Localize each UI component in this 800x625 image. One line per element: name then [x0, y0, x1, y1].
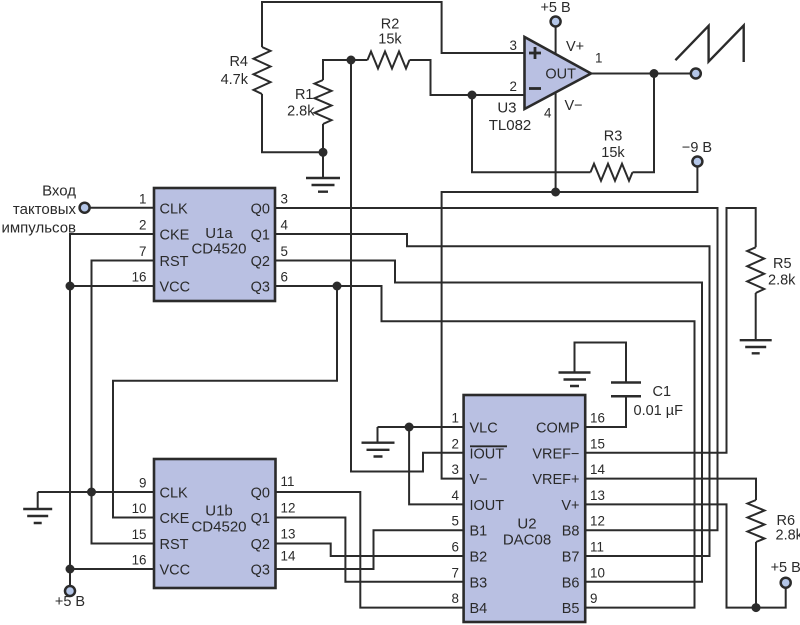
wire: U1a CKE to +5V rail	[70, 234, 154, 586]
svg-text:11: 11	[281, 474, 295, 489]
power -9V terminal	[692, 157, 702, 167]
svg-text:B5: B5	[562, 601, 580, 617]
node: V- / -9V rail junction	[551, 188, 560, 197]
svg-text:B7: B7	[562, 550, 580, 566]
svg-text:5: 5	[452, 514, 459, 529]
wire: input to U1a CLK	[90, 207, 154, 209]
wire: R2 right to op-amp -input	[410, 60, 525, 95]
svg-text:Q3: Q3	[251, 563, 270, 579]
wire: DAC VLC to ground	[378, 426, 464, 428]
svg-text:16: 16	[132, 553, 147, 568]
svg-text:V−: V−	[470, 472, 488, 488]
resistor R1	[315, 80, 332, 124]
wire: DAC V+ to +5V	[585, 504, 786, 607]
IC U2 DAC08	[464, 395, 586, 622]
svg-text:8: 8	[452, 591, 459, 606]
svg-text:15: 15	[590, 436, 605, 451]
svg-text:U2: U2	[517, 516, 536, 533]
svg-text:B1: B1	[470, 524, 488, 540]
resistor R6	[748, 500, 765, 542]
svg-text:V+: V+	[561, 498, 579, 514]
output terminal	[691, 69, 701, 79]
svg-text:15k: 15k	[601, 145, 625, 161]
node: +5 rail / U1a VCC	[66, 282, 75, 291]
svg-text:14: 14	[281, 549, 296, 564]
node A: R1/R2 junction	[347, 56, 356, 65]
svg-text:12: 12	[590, 514, 605, 529]
svg-text:CD4520: CD4520	[191, 241, 246, 258]
svg-text:11: 11	[590, 540, 604, 555]
svg-text:1: 1	[139, 192, 146, 207]
svg-text:Q0: Q0	[251, 202, 270, 218]
svg-text:B4: B4	[470, 601, 488, 617]
svg-text:U3: U3	[497, 100, 516, 117]
ground G5	[740, 340, 772, 353]
wire: op-amp V- down to -9V rail	[555, 92, 557, 192]
svg-text:+5 В: +5 В	[55, 594, 85, 610]
resistor R3	[591, 164, 633, 181]
op-amp minus symbol	[529, 87, 541, 90]
svg-text:TL082: TL082	[489, 117, 532, 134]
svg-text:RST: RST	[160, 537, 189, 553]
wire: U1a Q1 to DAC B7	[275, 234, 710, 556]
IC U1b CD4520	[154, 459, 276, 588]
wire: R6 bottom to +5V rail	[755, 542, 757, 608]
svg-text:тактовых: тактовых	[13, 201, 77, 218]
op-amp plus symbol	[529, 47, 541, 59]
svg-text:3: 3	[510, 38, 517, 53]
svg-text:16: 16	[590, 411, 605, 426]
wire: DAC COMP to C1	[585, 396, 626, 427]
svg-text:2.8k: 2.8k	[768, 273, 796, 289]
node: +5 rail / U1b VCC	[66, 565, 75, 574]
svg-text:IOUT: IOUT	[470, 498, 505, 514]
svg-text:4.7k: 4.7k	[221, 72, 249, 88]
svg-text:15k: 15k	[378, 32, 402, 48]
svg-text:5: 5	[281, 244, 288, 259]
wire: R1 bottom lead	[322, 124, 324, 152]
svg-text:B6: B6	[562, 575, 580, 591]
svg-text:R5: R5	[773, 256, 792, 272]
svg-text:+5 В: +5 В	[540, 0, 570, 16]
svg-text:10: 10	[590, 565, 605, 580]
svg-text:VREF+: VREF+	[532, 472, 579, 488]
svg-text:4: 4	[281, 218, 289, 233]
wire: ground stub	[37, 492, 39, 509]
svg-text:13: 13	[281, 527, 296, 542]
node: RST / ground rail	[87, 488, 96, 497]
resistor R2	[368, 52, 410, 69]
svg-text:R3: R3	[604, 129, 623, 145]
node: VLC junction	[405, 423, 414, 432]
power +5V terminal (bottom left)	[65, 586, 75, 596]
svg-text:2.8k: 2.8k	[287, 104, 315, 120]
wire: U1a VCC	[70, 285, 154, 287]
input terminal	[80, 203, 90, 213]
node: R6 / +5V junction	[752, 603, 761, 612]
wire: C1 top to ground	[575, 343, 627, 383]
svg-text:4: 4	[452, 488, 460, 503]
svg-text:7: 7	[452, 565, 459, 580]
ground G4	[559, 373, 591, 387]
svg-text:15: 15	[132, 527, 147, 542]
svg-text:4: 4	[544, 106, 552, 121]
wire: -input node down to R3 left	[472, 95, 591, 172]
wire: VLC node to DAC IOUT pin 4	[409, 427, 464, 504]
power +5V terminal (top)	[551, 17, 561, 27]
wire: R4 bottom to ground node	[262, 94, 323, 152]
svg-text:CKE: CKE	[160, 511, 190, 527]
svg-text:RST: RST	[160, 254, 189, 270]
node: output junction	[650, 69, 659, 78]
svg-text:COMP: COMP	[536, 421, 580, 437]
resistor R5	[747, 247, 764, 293]
svg-text:CLK: CLK	[160, 486, 189, 502]
wire: U1b Q1 to DAC B3	[276, 518, 464, 582]
wire: U1a RST to U1b RST	[92, 261, 155, 544]
svg-text:1: 1	[595, 51, 602, 66]
wire: U1a Q2 to DAC B6	[275, 261, 702, 582]
svg-text:CD4520: CD4520	[191, 519, 246, 536]
wire: VLC ground stub	[377, 427, 379, 443]
sawtooth waveform icon	[675, 25, 743, 62]
svg-text:CLK: CLK	[160, 202, 189, 218]
wire: U1a Q3 to DAC B5	[275, 286, 695, 608]
svg-text:2: 2	[452, 436, 459, 451]
svg-text:V+: V+	[566, 39, 584, 55]
svg-text:13: 13	[590, 488, 605, 503]
svg-text:3: 3	[281, 192, 288, 207]
svg-text:9: 9	[590, 591, 597, 606]
wire: R1 top lead to summing node	[323, 60, 368, 80]
wire: top wire from R4 top to op-amp +input	[262, 2, 524, 53]
svg-text:9: 9	[139, 476, 146, 491]
svg-text:V−: V−	[565, 98, 583, 114]
svg-text:VCC: VCC	[160, 280, 191, 296]
svg-text:+5 В: +5 В	[771, 560, 800, 576]
svg-text:U1b: U1b	[205, 503, 233, 520]
svg-text:12: 12	[281, 501, 296, 516]
wire: U1b CLK to ground	[38, 491, 154, 493]
svg-text:IOUT: IOUT	[470, 446, 505, 462]
svg-text:2.8k: 2.8k	[776, 528, 800, 544]
svg-text:Q0: Q0	[251, 486, 270, 502]
svg-text:R2: R2	[381, 17, 400, 33]
capacitor C1	[611, 383, 641, 397]
IC U1a CD4520	[154, 188, 275, 301]
svg-text:6: 6	[452, 540, 459, 555]
svg-text:Q3: Q3	[251, 280, 270, 296]
ground G1	[306, 178, 340, 192]
svg-text:C1: C1	[653, 384, 672, 400]
svg-text:VLC: VLC	[470, 421, 498, 437]
svg-text:Q1: Q1	[251, 511, 270, 527]
svg-text:3: 3	[452, 462, 459, 477]
node: R4/R1 ground junction	[319, 148, 328, 157]
wire: +5V to op-amp V+	[555, 27, 557, 54]
IOUTbar overline	[470, 445, 507, 447]
wire: R5 to ground	[755, 293, 757, 340]
wire: Q3 to U1b CKE	[113, 286, 337, 518]
svg-text:0.01 µF: 0.01 µF	[634, 403, 684, 419]
svg-text:U1a: U1a	[205, 225, 233, 242]
node: -input junction	[468, 91, 477, 100]
wire: R3 right up to output node	[633, 74, 655, 173]
svg-text:B3: B3	[470, 575, 488, 591]
wire: ground stub below R1	[322, 152, 324, 178]
ground G2	[23, 509, 52, 523]
wire: U1b Q0 to DAC B4	[276, 492, 464, 608]
svg-text:VCC: VCC	[160, 563, 191, 579]
svg-text:16: 16	[132, 270, 147, 285]
svg-text:10: 10	[132, 501, 147, 516]
wire: -9V rail	[442, 167, 698, 479]
svg-text:7: 7	[139, 244, 146, 259]
wire: op-amp output	[591, 73, 691, 75]
svg-text:Вход: Вход	[42, 183, 76, 200]
wire: U1a Q0 to DAC B8	[275, 208, 718, 530]
wire: U1b Q3 to DAC B1	[276, 530, 464, 569]
svg-text:B8: B8	[562, 524, 580, 540]
svg-text:2: 2	[510, 79, 517, 94]
svg-text:Q1: Q1	[251, 228, 270, 244]
svg-text:2: 2	[139, 218, 146, 233]
svg-text:R1: R1	[295, 87, 314, 103]
node: Q3 junction	[333, 282, 342, 291]
svg-text:6: 6	[281, 270, 288, 285]
power +5V terminal (bottom right)	[781, 578, 791, 588]
wire: U1b Q2 to DAC B2	[276, 544, 464, 557]
svg-text:CKE: CKE	[160, 228, 190, 244]
svg-text:B2: B2	[470, 550, 488, 566]
svg-text:OUT: OUT	[545, 67, 576, 83]
svg-text:−9 В: −9 В	[682, 140, 712, 156]
resistor R4	[254, 47, 271, 94]
wire: U1b VCC	[70, 568, 154, 570]
wire: summing node down to DAC IOUTbar pin 2	[351, 60, 464, 472]
wire: DAC VREF+ to R6	[585, 479, 756, 500]
ground G3	[362, 443, 395, 457]
svg-text:DAC08: DAC08	[503, 532, 551, 549]
wire: DAC VREF- to R5	[585, 208, 756, 453]
svg-text:импульсов: импульсов	[1, 220, 76, 237]
svg-text:VREF−: VREF−	[532, 446, 579, 462]
svg-text:Q2: Q2	[251, 254, 270, 270]
svg-text:R4: R4	[229, 54, 248, 70]
svg-text:1: 1	[452, 411, 459, 426]
svg-text:14: 14	[590, 462, 605, 477]
op-amp U1 triangle	[525, 37, 592, 109]
svg-text:Q2: Q2	[251, 537, 270, 553]
